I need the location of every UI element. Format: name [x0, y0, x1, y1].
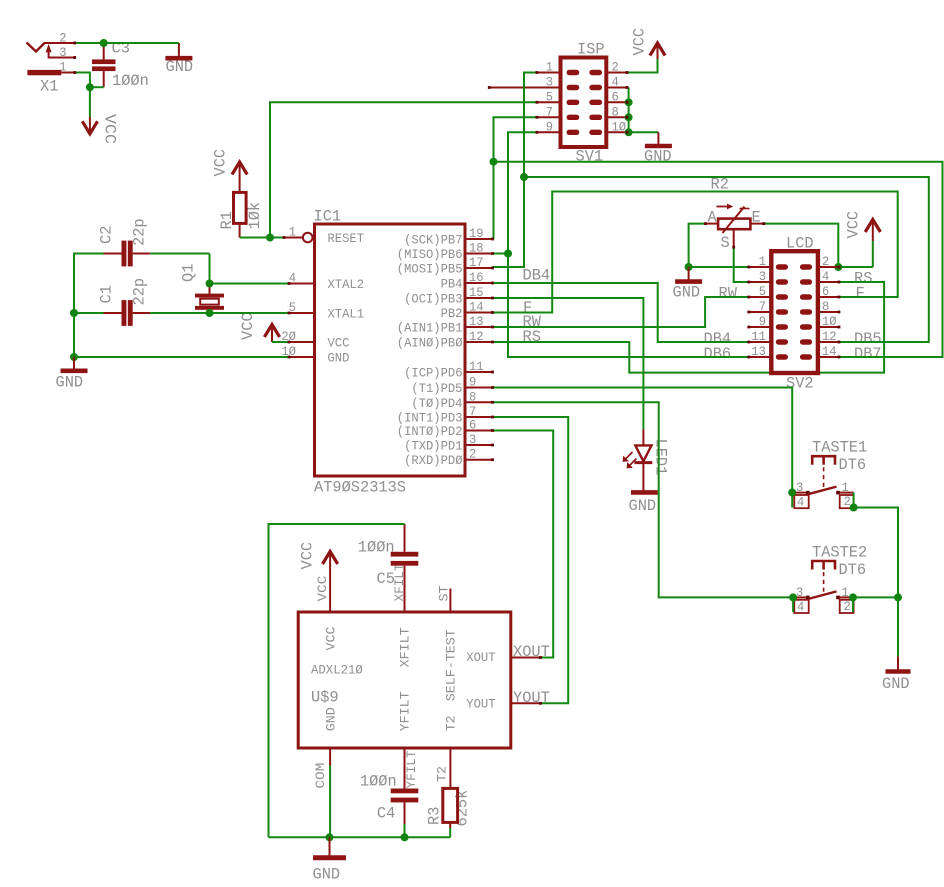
- svg-text:YOUT: YOUT: [466, 696, 495, 711]
- svg-text:SV2: SV2: [786, 375, 814, 393]
- svg-text:S: S: [721, 234, 730, 252]
- svg-text:X1: X1: [40, 78, 58, 96]
- svg-text:VCC: VCC: [315, 575, 330, 601]
- svg-text:VCC: VCC: [323, 626, 338, 650]
- svg-text:(MOSI)PB5: (MOSI)PB5: [397, 262, 463, 277]
- svg-text:(RXD)PDØ: (RXD)PDØ: [404, 453, 463, 468]
- svg-text:TASTE2: TASTE2: [812, 543, 867, 561]
- svg-text:RW: RW: [719, 285, 738, 303]
- svg-text:C2: C2: [98, 226, 116, 244]
- svg-text:GND: GND: [673, 284, 701, 302]
- svg-text:GND: GND: [644, 148, 672, 166]
- svg-text:GND: GND: [56, 374, 84, 392]
- svg-text:C4: C4: [377, 805, 395, 823]
- svg-text:VCC: VCC: [101, 114, 119, 144]
- svg-text:VCC: VCC: [212, 149, 230, 177]
- svg-text:GND: GND: [323, 707, 338, 731]
- svg-text:SELF-TEST: SELF-TEST: [444, 629, 459, 701]
- svg-text:XTAL2: XTAL2: [328, 277, 365, 292]
- svg-text:GND: GND: [629, 497, 657, 515]
- svg-text:(SCK)PB7: (SCK)PB7: [404, 233, 462, 248]
- svg-text:COM: COM: [313, 763, 328, 789]
- svg-text:ST: ST: [437, 585, 452, 601]
- svg-text:XFILT: XFILT: [398, 627, 413, 667]
- svg-text:DT6: DT6: [839, 456, 867, 474]
- svg-text:TASTE1: TASTE1: [812, 439, 867, 457]
- svg-text:(OCI)PB3: (OCI)PB3: [404, 292, 462, 307]
- svg-text:(MISO)PB6: (MISO)PB6: [397, 247, 463, 262]
- svg-text:C1: C1: [98, 285, 116, 303]
- svg-text:RESET: RESET: [328, 231, 365, 246]
- svg-text:VCC: VCC: [631, 28, 649, 56]
- svg-text:DB7: DB7: [854, 345, 882, 363]
- svg-text:1ØØn: 1ØØn: [360, 773, 397, 791]
- svg-text:RS: RS: [523, 328, 541, 346]
- svg-text:GND: GND: [313, 866, 341, 884]
- svg-text:T2: T2: [444, 715, 459, 731]
- svg-text:YFILT: YFILT: [398, 691, 413, 731]
- svg-text:YFILT: YFILT: [404, 750, 419, 788]
- svg-text:GND: GND: [328, 351, 350, 366]
- svg-text:LED1: LED1: [652, 439, 670, 476]
- svg-text:2: 2: [844, 599, 851, 614]
- svg-text:DB4: DB4: [523, 267, 551, 285]
- svg-text:(TXD)PD1: (TXD)PD1: [404, 439, 463, 454]
- svg-text:1Øk: 1Øk: [246, 202, 264, 230]
- svg-text:VCC: VCC: [299, 542, 317, 570]
- svg-text:(ICP)PD6: (ICP)PD6: [404, 366, 462, 381]
- svg-text:1ØØn: 1ØØn: [112, 72, 149, 90]
- svg-text:DT6: DT6: [839, 561, 867, 579]
- svg-text:22p: 22p: [131, 218, 149, 246]
- svg-text:(TØ)PD4: (TØ)PD4: [411, 396, 462, 411]
- svg-text:22p: 22p: [131, 278, 149, 306]
- svg-text:(T1)PD5: (T1)PD5: [411, 381, 462, 396]
- svg-text:GND: GND: [166, 58, 194, 76]
- svg-text:GND: GND: [882, 675, 910, 693]
- svg-text:DB6: DB6: [704, 345, 732, 363]
- svg-text:PB2: PB2: [441, 306, 463, 321]
- svg-text:(INTØ)PD2: (INTØ)PD2: [397, 424, 463, 439]
- svg-text:R3: R3: [426, 807, 444, 825]
- svg-text:XOUT: XOUT: [466, 650, 495, 665]
- svg-text:XTAL1: XTAL1: [328, 307, 365, 322]
- svg-text:(AIN1)PB1: (AIN1)PB1: [397, 321, 463, 336]
- svg-text:(AINØ)PBØ: (AINØ)PBØ: [397, 336, 463, 351]
- svg-text:VCC: VCC: [239, 312, 257, 340]
- svg-text:F: F: [856, 285, 865, 303]
- svg-text:T2: T2: [435, 766, 450, 782]
- svg-text:VCC: VCC: [845, 211, 863, 239]
- svg-text:AT9ØS2313S: AT9ØS2313S: [314, 479, 406, 497]
- svg-text:ADXL21Ø: ADXL21Ø: [311, 663, 363, 678]
- svg-text:VCC: VCC: [328, 336, 350, 351]
- svg-text:Q1: Q1: [180, 264, 198, 282]
- svg-text:U$9: U$9: [311, 688, 339, 706]
- svg-text:PB4: PB4: [441, 277, 463, 292]
- svg-text:1ØØn: 1ØØn: [358, 539, 395, 557]
- svg-text:SV1: SV1: [576, 148, 604, 166]
